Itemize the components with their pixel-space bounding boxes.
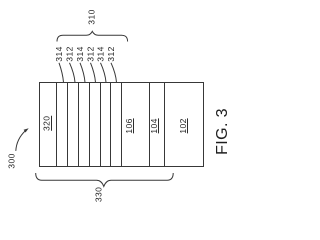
svg-text:314: 314: [54, 46, 64, 61]
svg-text:FIG. 3: FIG. 3: [214, 108, 231, 155]
svg-text:320: 320: [41, 116, 51, 131]
svg-text:312: 312: [65, 46, 75, 61]
svg-text:310: 310: [87, 9, 97, 24]
svg-text:102: 102: [178, 118, 188, 133]
svg-text:314: 314: [75, 46, 85, 61]
svg-text:312: 312: [106, 46, 116, 61]
svg-text:312: 312: [86, 46, 96, 61]
svg-text:104: 104: [149, 118, 159, 133]
svg-text:300: 300: [7, 153, 17, 168]
svg-text:330: 330: [93, 187, 103, 202]
svg-text:106: 106: [124, 118, 134, 133]
svg-text:314: 314: [96, 46, 106, 61]
